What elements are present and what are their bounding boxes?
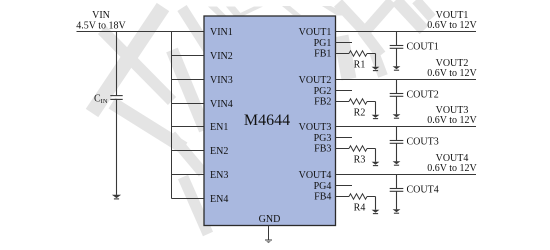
wire stub VIN3 (172, 79, 205, 81)
svg-text:PG2: PG2 (314, 86, 332, 97)
wire VOUT4 rail (336, 174, 477, 176)
wire PG1 stub (336, 42, 353, 44)
svg-text:R2: R2 (354, 108, 366, 119)
watermark (92, 0, 432, 234)
svg-text:GND: GND (259, 214, 281, 225)
svg-text:0.6V to 12V: 0.6V to 12V (427, 68, 477, 79)
wire stub EN2 (172, 150, 205, 152)
wire FB4 stub (336, 196, 350, 198)
wire stub EN1 (172, 126, 205, 128)
capacitor COUT2 (390, 80, 439, 115)
wire R3 to ground (367, 148, 376, 150)
svg-text:PG3: PG3 (314, 133, 332, 144)
wire stub VIN2 (172, 55, 205, 57)
svg-text:VOUT4: VOUT4 (299, 170, 332, 181)
wire FB2 stub (336, 101, 350, 103)
resistor R3 (349, 146, 367, 166)
svg-text:0.6V to 12V: 0.6V to 12V (427, 163, 477, 174)
ground (372, 197, 380, 214)
svg-text:COUT4: COUT4 (407, 185, 439, 196)
svg-text:VIN1: VIN1 (210, 27, 233, 38)
wire FB1 stub (336, 53, 350, 55)
resistor R1 (349, 51, 367, 71)
svg-text:FB1: FB1 (314, 49, 331, 60)
wire R4 to ground (367, 196, 376, 198)
wire stub VIN4 (172, 103, 205, 105)
svg-text:R4: R4 (354, 203, 366, 214)
ground (372, 149, 380, 166)
capacitor COUT4 (390, 175, 439, 210)
IC U1 M4644 (204, 16, 336, 226)
svg-text:VIN4: VIN4 (210, 99, 233, 110)
svg-text:VOUT3: VOUT3 (299, 122, 332, 133)
svg-text:VOUT1: VOUT1 (299, 27, 332, 38)
wire PG3 stub (336, 137, 353, 139)
wire R1 to ground (367, 53, 376, 55)
svg-text:EN3: EN3 (210, 170, 228, 181)
ground (393, 114, 401, 118)
ground (393, 66, 401, 70)
svg-text:EN4: EN4 (210, 194, 228, 205)
wire PG4 stub (336, 185, 353, 187)
resistor R4 (349, 194, 367, 214)
wire PG2 stub (336, 90, 353, 92)
svg-text:R3: R3 (354, 155, 366, 166)
svg-text:FB3: FB3 (314, 144, 331, 155)
svg-text:VIN3: VIN3 (210, 75, 233, 86)
ground (393, 161, 401, 165)
svg-text:0.6V to 12V: 0.6V to 12V (427, 115, 477, 126)
svg-text:FB4: FB4 (314, 192, 331, 203)
svg-text:4.5V to 18V: 4.5V to 18V (76, 21, 126, 32)
svg-text:0.6V to 12V: 0.6V to 12V (427, 20, 477, 31)
svg-text:COUT3: COUT3 (407, 137, 439, 148)
svg-text:VIN2: VIN2 (210, 51, 233, 62)
svg-text:PG4: PG4 (314, 181, 332, 192)
capacitor CIN (94, 32, 123, 199)
ground GND pin (265, 226, 272, 244)
wire stub EN4 (172, 198, 205, 200)
resistor R2 (349, 99, 367, 119)
ground (372, 102, 380, 119)
svg-text:PG1: PG1 (314, 38, 332, 49)
ground (372, 54, 380, 71)
wire VOUT1 rail (336, 31, 477, 33)
svg-text:FB2: FB2 (314, 97, 331, 108)
svg-text:M4644: M4644 (244, 112, 290, 129)
svg-text:COUT2: COUT2 (407, 90, 439, 101)
svg-text:COUT1: COUT1 (407, 42, 439, 53)
capacitor COUT3 (390, 127, 439, 162)
wire VIN rail (77, 31, 205, 33)
svg-text:EN1: EN1 (210, 122, 228, 133)
wire R2 to ground (367, 101, 376, 103)
wire VOUT3 rail (336, 126, 477, 128)
svg-text:EN2: EN2 (210, 146, 228, 157)
wire stub EN3 (172, 174, 205, 176)
svg-text:R1: R1 (354, 60, 366, 71)
wire VOUT2 rail (336, 79, 477, 81)
capacitor COUT1 (390, 32, 439, 67)
wire FB3 stub (336, 148, 350, 150)
ground (393, 209, 401, 213)
wire VIN bus vertical (171, 32, 173, 199)
svg-text:VOUT2: VOUT2 (299, 75, 332, 86)
